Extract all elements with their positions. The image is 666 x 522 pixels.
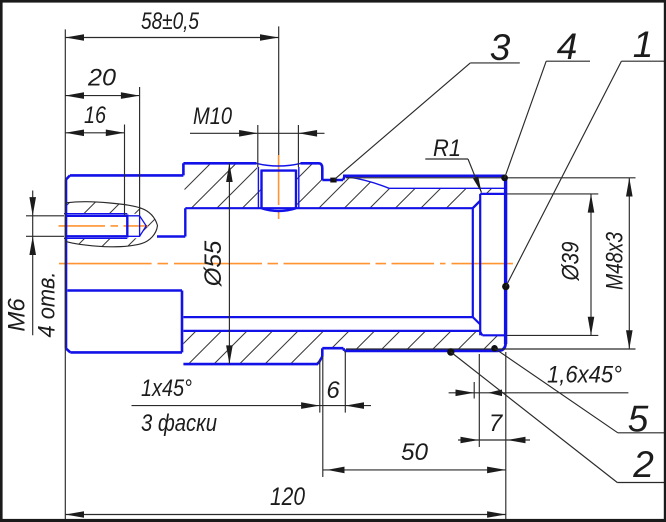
svg-text:4 отв.: 4 отв.	[34, 272, 61, 338]
dim M10	[190, 103, 325, 167]
dim ø39	[507, 194, 598, 336]
part outline: bore ø30	[183, 201, 480, 325]
dim ø55	[200, 163, 233, 364]
svg-text:М6: М6	[4, 298, 31, 332]
part outline: left flange	[66, 163, 183, 352]
svg-text:6: 6	[326, 377, 340, 404]
callout 1	[502, 24, 665, 290]
centerline main axis	[59, 263, 513, 265]
svg-text:Ø55: Ø55	[200, 240, 227, 287]
dim M6 4 holes	[4, 191, 65, 338]
dim 120	[65, 483, 506, 518]
svg-text:3 фаски: 3 фаски	[141, 410, 217, 437]
dim 1.6x45 chamfer	[449, 354, 629, 447]
dim 20	[65, 65, 139, 216]
part outline: M10 threaded hole	[257, 163, 301, 211]
svg-text:1,6х45°: 1,6х45°	[547, 362, 622, 389]
dim 1x45 3 chamfers with 6 groove dim	[132, 351, 372, 477]
part outline: M6 threaded hole	[64, 214, 146, 239]
callout 4	[501, 26, 590, 181]
svg-text:Ø39: Ø39	[558, 242, 585, 282]
leader R1	[425, 135, 481, 193]
hatch M10 hole clearing (white)	[257, 161, 299, 211]
centerline M10 hole axis	[278, 155, 280, 219]
svg-text:1х45°: 1х45°	[141, 375, 192, 402]
hatch bottom wall section	[183, 331, 504, 364]
svg-text:М48х3: М48х3	[602, 231, 629, 290]
dim M48x3	[346, 178, 636, 349]
part outline: left counterbore	[67, 208, 185, 290]
part outline: thread minor line and runout	[345, 177, 506, 189]
svg-text:58±0,5: 58±0,5	[141, 8, 200, 35]
svg-text:1: 1	[633, 24, 654, 65]
callout 2 thread	[447, 348, 665, 485]
centerline M6 hole axis	[59, 225, 149, 227]
M6 local section boundary (thin wavy)	[66, 202, 158, 247]
dim 58±0.5	[65, 8, 278, 519]
svg-text:М10: М10	[193, 103, 233, 130]
svg-text:5: 5	[628, 399, 649, 440]
svg-text:2: 2	[632, 444, 654, 485]
part outline: counterbore ø39 wall	[480, 194, 506, 335]
part outline: bottom inner line	[183, 331, 504, 335]
part outline: thread M48 major and right face	[343, 176, 506, 351]
dim 50	[323, 439, 506, 473]
dim 16	[65, 102, 124, 216]
svg-text:50: 50	[401, 439, 429, 466]
svg-text:20: 20	[87, 65, 117, 92]
svg-text:4: 4	[557, 26, 578, 67]
svg-text:120: 120	[270, 483, 305, 511]
svg-text:3: 3	[490, 27, 511, 68]
dim 7	[458, 352, 530, 520]
callout 3 groove	[330, 27, 520, 183]
hatch top wall section	[183, 163, 505, 208]
hatch M6 local section capsule	[64, 202, 158, 247]
callout 5 chamfer	[491, 345, 665, 440]
part outline: mid body ø55	[183, 163, 344, 364]
svg-text:7: 7	[489, 410, 504, 437]
svg-text:16: 16	[84, 102, 107, 129]
svg-text:R1: R1	[433, 135, 461, 162]
